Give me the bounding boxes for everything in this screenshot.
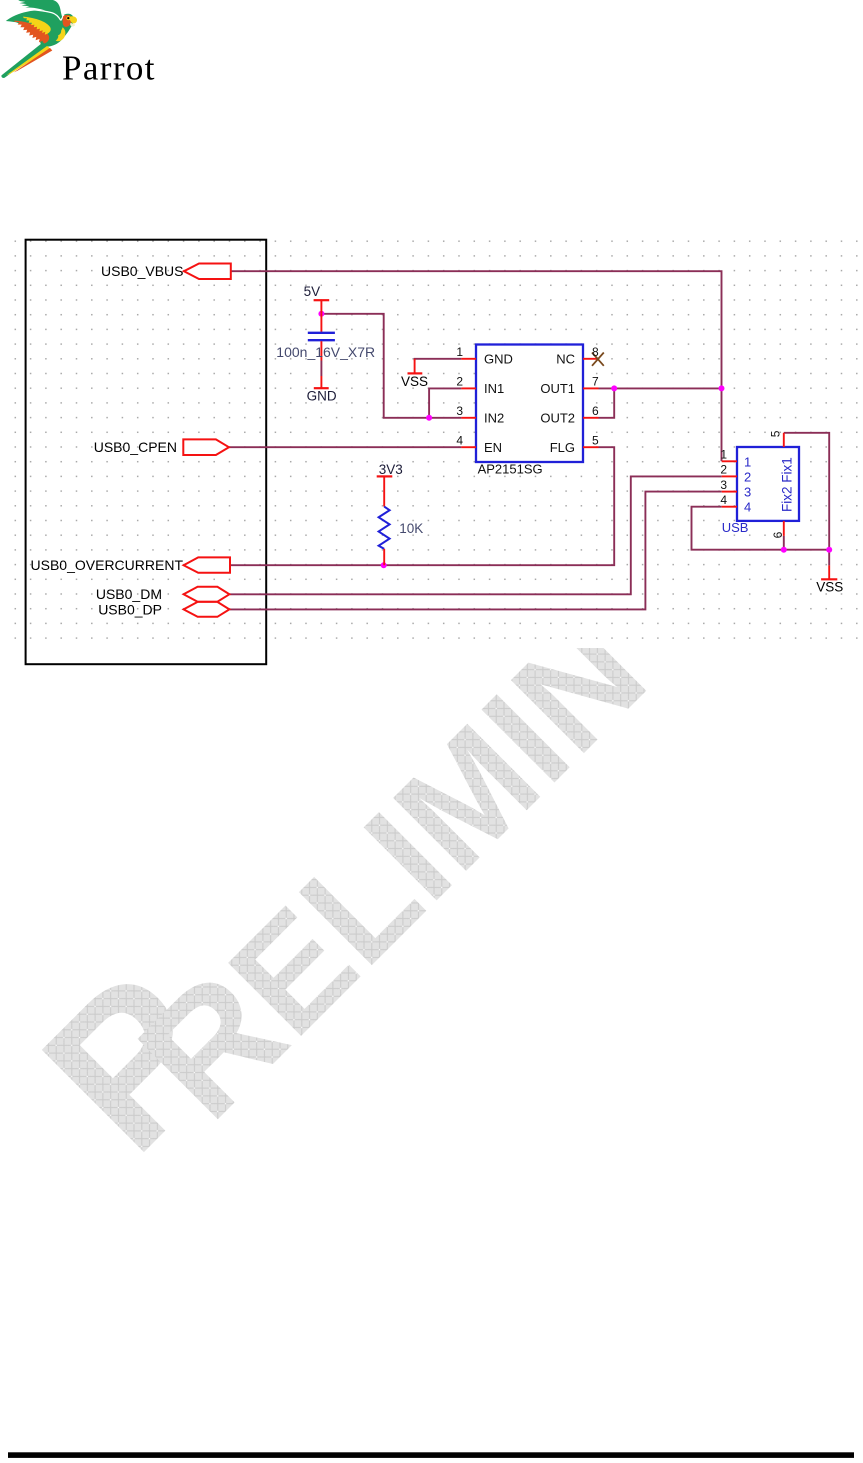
ground symbol GND (307, 388, 337, 403)
svg-text:USB0_DM: USB0_DM (96, 586, 162, 602)
svg-text:GND: GND (307, 389, 337, 404)
svg-text:IN2: IN2 (484, 411, 504, 426)
wire VSS2 stub (828, 550, 830, 566)
svg-text:2: 2 (720, 463, 727, 477)
svg-text:OUT2: OUT2 (540, 411, 575, 426)
power symbol VSS (near pin1) (401, 359, 428, 389)
svg-text:USB0_CPEN: USB0_CPEN (94, 439, 177, 455)
svg-text:2: 2 (744, 469, 751, 484)
port USB0_CPEN (94, 439, 229, 455)
belly yellow crescent (56, 27, 66, 41)
lower wing yellow (23, 17, 51, 35)
power symbol VSS (bottom right) (816, 565, 843, 594)
op IC U AP2151SG (456, 345, 603, 477)
svg-text:8: 8 (592, 345, 599, 359)
svg-text:Fix2 Fix1: Fix2 Fix1 (780, 457, 795, 512)
tail yellow (7, 46, 51, 75)
lower wing orange (14, 21, 50, 44)
svg-text:USB0_OVERCURRENT: USB0_OVERCURRENT (31, 557, 184, 573)
wire USB pin4 to vss rail (692, 507, 830, 550)
outside pin numbers black (720, 448, 727, 507)
svg-text:4: 4 (720, 493, 727, 507)
wire OUT2 riser (599, 388, 615, 417)
svg-text:5V: 5V (304, 284, 321, 299)
junction at VSS rail corner (826, 547, 832, 553)
svg-text:AP2151SG: AP2151SG (478, 462, 543, 477)
eye ring (66, 16, 70, 20)
connector J USB (720, 430, 799, 538)
svg-text:NC: NC (556, 352, 575, 367)
svg-text:6: 6 (771, 531, 785, 538)
svg-text:100n_16V_X7R: 100n_16V_X7R (276, 344, 375, 360)
grid dots (8, 240, 863, 639)
svg-text:FLG: FLG (550, 440, 575, 455)
cheek red (63, 15, 72, 27)
svg-text:3V3: 3V3 (379, 462, 403, 477)
port USB0_VBUS (101, 263, 231, 279)
port USB0_DP (98, 601, 229, 617)
resistor R 10K (379, 507, 424, 566)
svg-text:USB: USB (722, 520, 749, 535)
pin 6 stub bottom (783, 521, 785, 536)
junction at OUT1/OUT2 tie (611, 385, 617, 391)
schematic canvas (0, 236, 863, 648)
svg-text:3: 3 (744, 485, 751, 500)
svg-text:7: 7 (592, 375, 599, 389)
svg-text:1: 1 (720, 448, 727, 462)
pin 5 stub top (783, 433, 785, 447)
svg-text:USB0_DP: USB0_DP (98, 601, 162, 617)
wire USB pin5 loop (784, 433, 829, 550)
junction at VBUS/OUT1 node (719, 385, 725, 391)
inside pin numbers blue (744, 454, 751, 514)
wire OUT1 row (599, 387, 722, 389)
junction at IN1/IN2 tie (426, 415, 432, 421)
pin stubs right (583, 358, 599, 360)
body and head (6, 10, 74, 46)
svg-text:5: 5 (592, 433, 599, 447)
footer bar (8, 1452, 854, 1458)
wire USB0_VBUS horizontal (231, 271, 722, 461)
svg-text:3: 3 (720, 478, 727, 492)
port USB0_DM (96, 586, 230, 602)
svg-text:GND: GND (484, 352, 513, 367)
svg-text:EN: EN (484, 440, 502, 455)
Parrot logo bird (1, 0, 77, 78)
svg-text:IN1: IN1 (484, 381, 504, 396)
power symbol 3V3 (377, 462, 403, 507)
svg-text:VSS: VSS (401, 374, 428, 389)
svg-text:OUT1: OUT1 (540, 381, 575, 396)
wire 5V net (321, 314, 461, 418)
svg-text:VSS: VSS (816, 580, 843, 595)
beak lower mandible (70, 23, 75, 27)
svg-text:4: 4 (456, 433, 463, 447)
power symbol 5V (304, 284, 330, 314)
pin stubs left (722, 460, 737, 462)
wire FLG to overcurrent (231, 447, 615, 565)
svg-text:USB0_VBUS: USB0_VBUS (101, 263, 183, 279)
svg-text:1: 1 (744, 454, 751, 469)
wire pin1 GND to VSS (415, 359, 462, 361)
capacitor C 100n_16V_X7R (276, 314, 375, 388)
svg-text:3: 3 (456, 404, 463, 418)
no-connect X on pin 8 (592, 353, 604, 366)
upper wing (18, 0, 63, 20)
svg-text:Parrot: Parrot (62, 48, 156, 87)
pin stubs left (461, 358, 476, 360)
svg-text:1: 1 (456, 345, 463, 359)
wire USB pin6 drop (783, 536, 785, 550)
wire USB0_DM to USB pin2 (230, 476, 722, 594)
wing separation white line (30, 9, 64, 20)
junction at USB pin6 / VSS rail (781, 547, 787, 553)
junction at resistor bottom / overcurrent net (381, 562, 387, 568)
beak yellow upper (70, 16, 77, 23)
svg-text:2: 2 (456, 375, 463, 389)
tail green (1, 42, 47, 78)
junction at 5V cap node (318, 311, 324, 317)
eye (67, 17, 69, 19)
wire IN1 branch (429, 388, 461, 417)
wire cap mid segment (320, 361, 322, 377)
wire USB0_DP to USB pin3 (230, 492, 722, 610)
pin numbers (456, 345, 599, 447)
svg-text:4: 4 (744, 500, 751, 515)
hierarchical block border (26, 240, 267, 665)
port USB0_OVERCURRENT (31, 557, 230, 573)
wire USB0_CPEN to EN (229, 446, 462, 448)
svg-text:10K: 10K (399, 521, 423, 536)
pin names (484, 352, 575, 455)
PRELIMINARY watermark (0, 587, 676, 1193)
svg-text:5: 5 (769, 430, 783, 437)
tail orange (14, 48, 53, 73)
svg-text:6: 6 (592, 404, 599, 418)
